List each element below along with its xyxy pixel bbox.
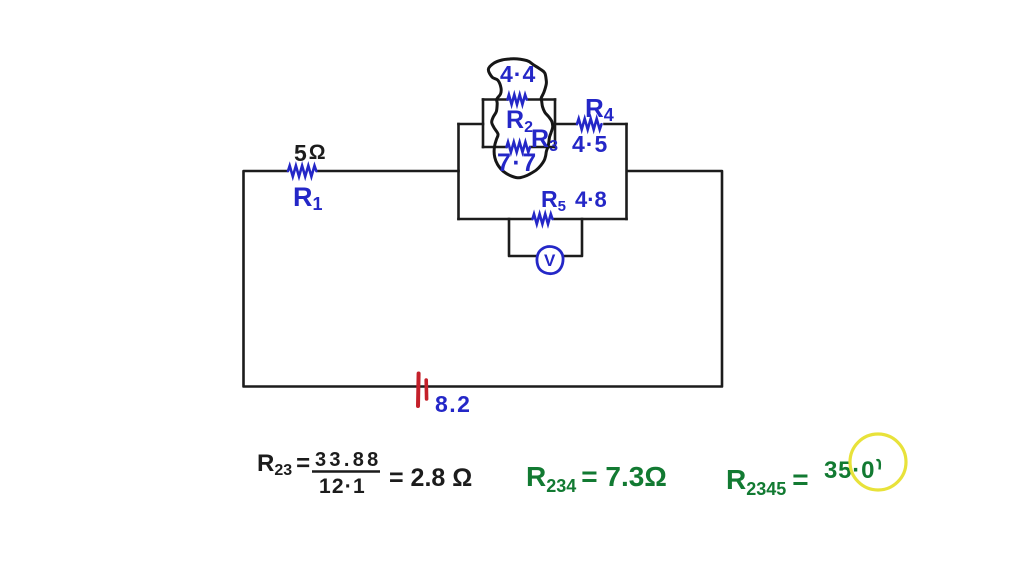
svg-text:4·5: 4·5 (572, 131, 608, 157)
svg-text:R2345=: R2345= (726, 464, 809, 499)
svg-text:R234= 7.3Ω: R234= 7.3Ω (526, 461, 667, 496)
svg-text:8.2: 8.2 (435, 391, 471, 417)
svg-text:= 2.8 Ω: = 2.8 Ω (389, 464, 472, 492)
svg-text:R2: R2 (506, 106, 533, 136)
svg-text:R54·8: R54·8 (541, 186, 607, 215)
svg-text:R23=: R23= (257, 450, 310, 479)
svg-text:R1: R1 (293, 182, 323, 214)
svg-text:7·7: 7·7 (497, 149, 538, 177)
svg-text:4·4: 4·4 (500, 61, 536, 87)
svg-text:V: V (544, 251, 556, 270)
svg-text:R4: R4 (585, 93, 614, 125)
svg-text:33.88: 33.88 (315, 449, 382, 471)
svg-text:5Ω: 5Ω (294, 140, 326, 166)
svg-text:12·1: 12·1 (319, 475, 366, 498)
